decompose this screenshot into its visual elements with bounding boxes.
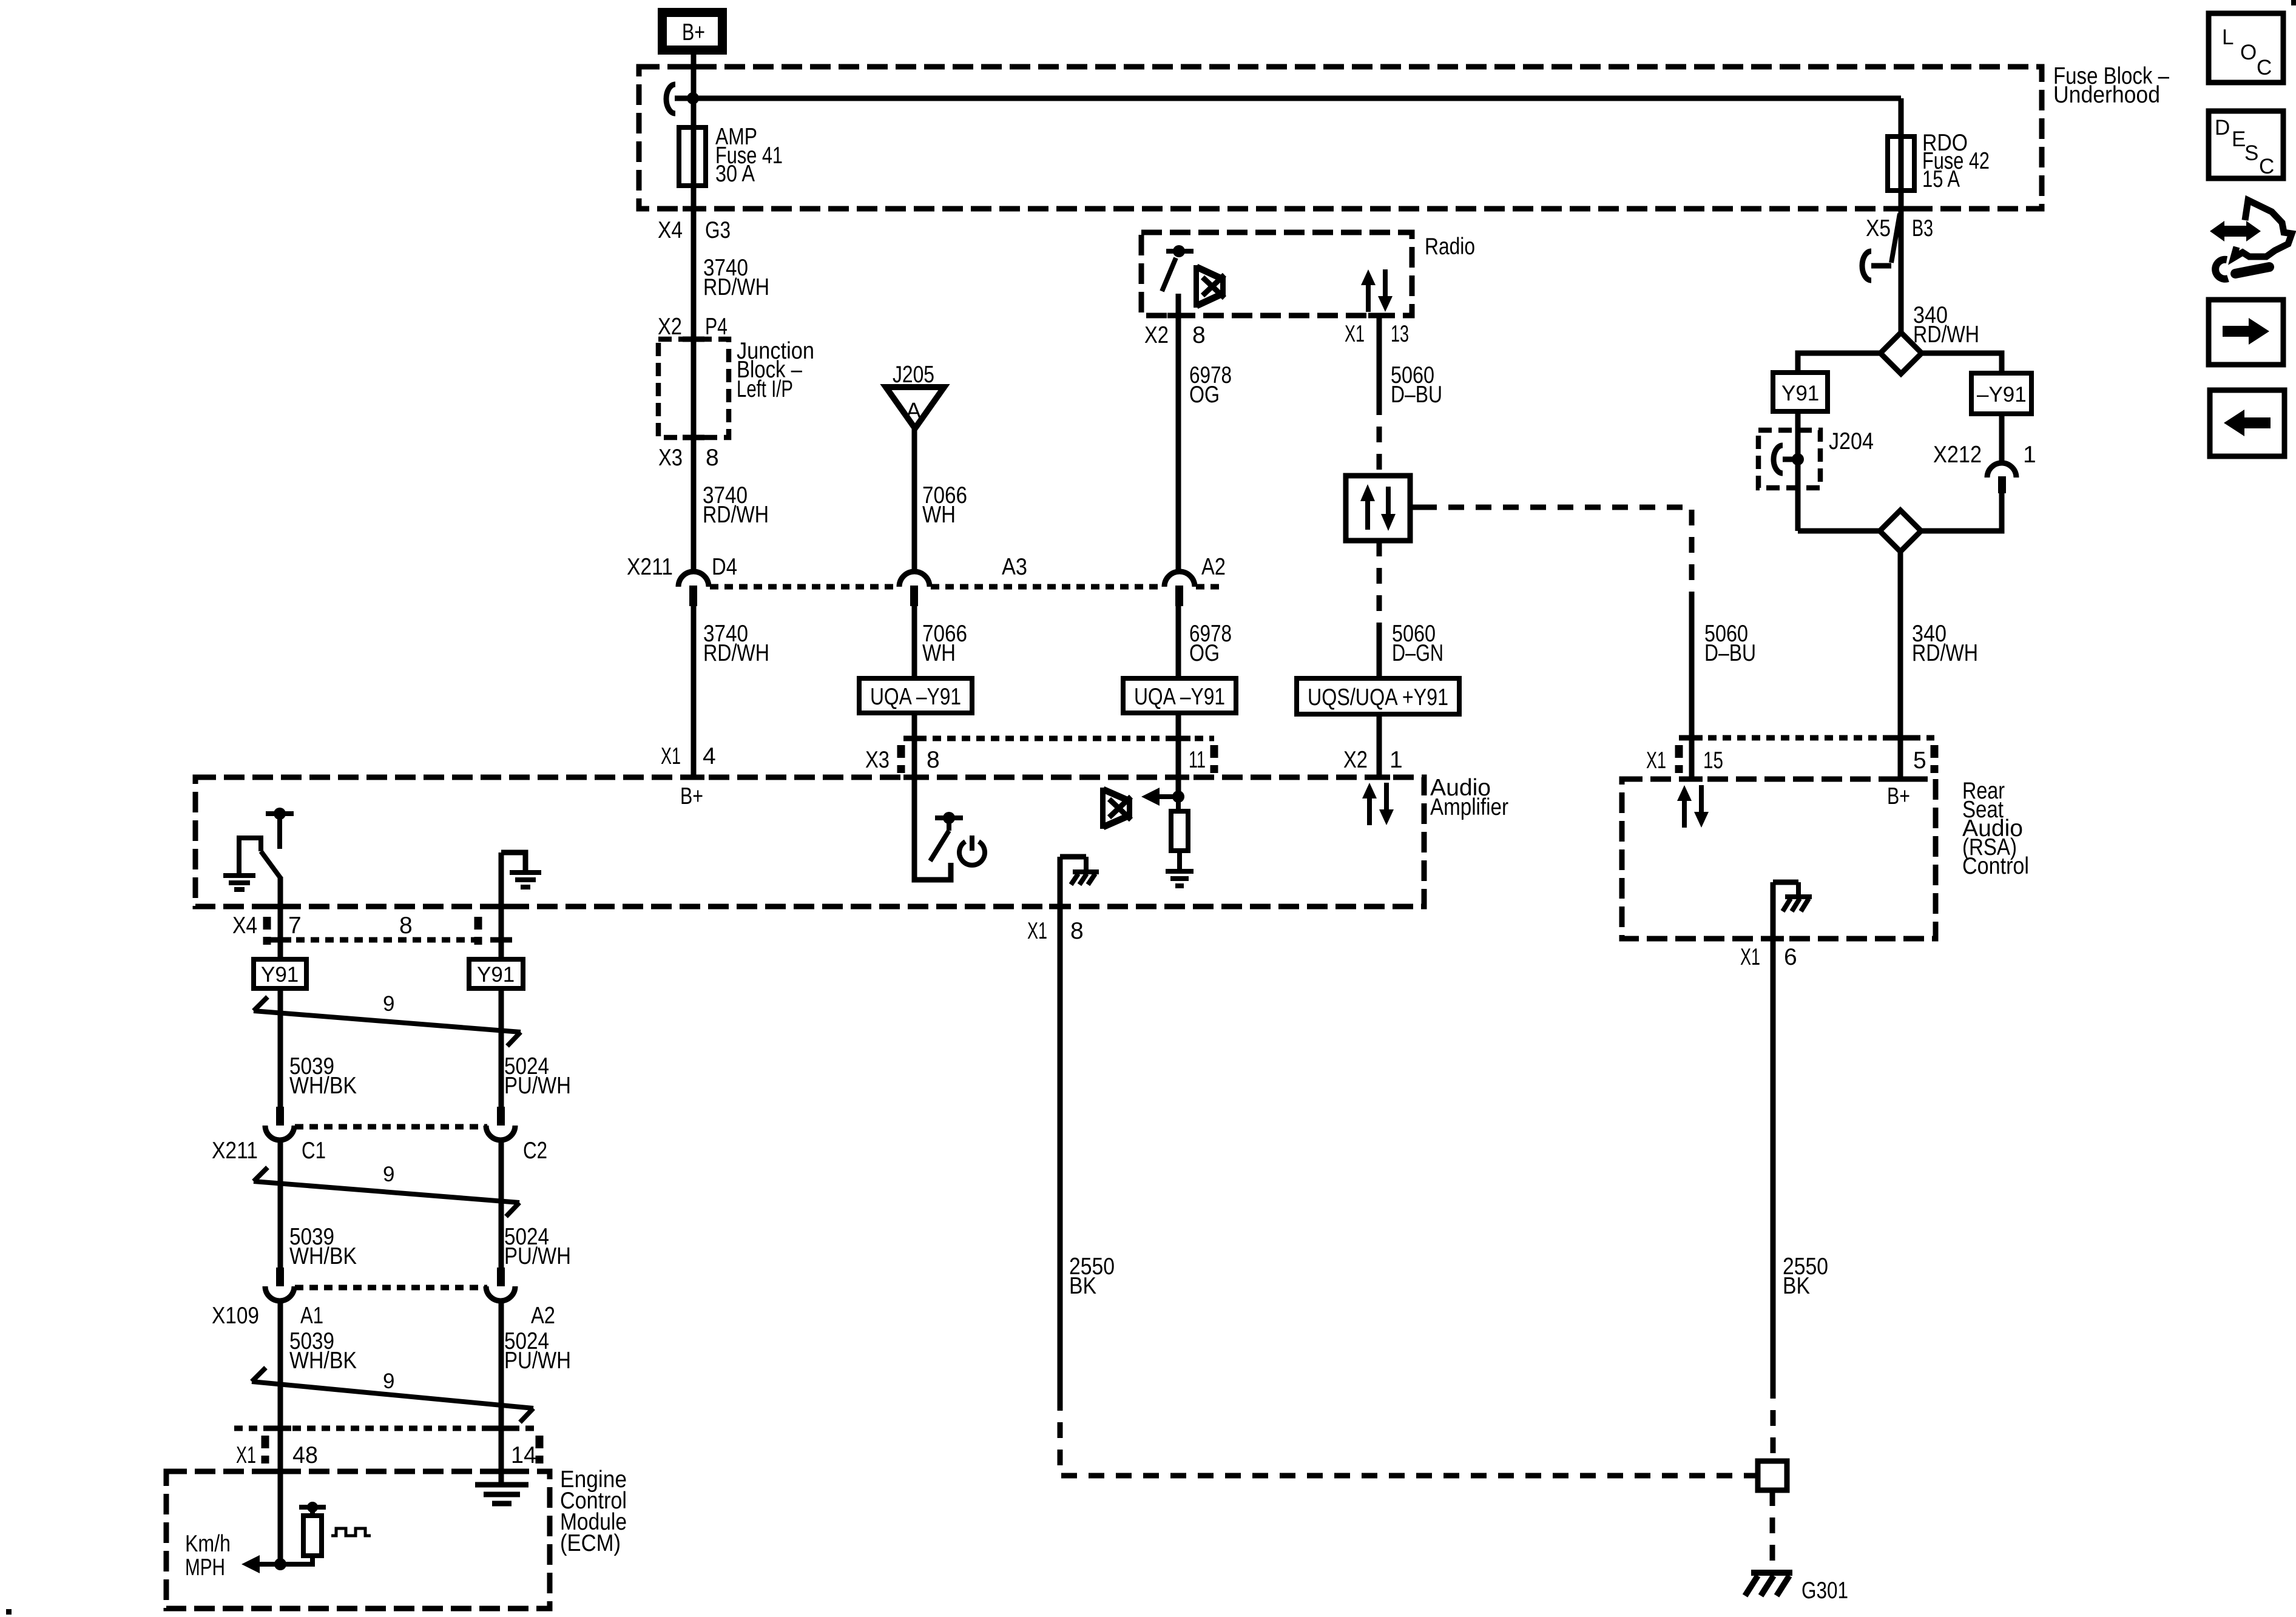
svg-text:Underhood: Underhood: [2053, 82, 2160, 108]
icon box arrow left: [2210, 390, 2284, 456]
svg-text:OG: OG: [1189, 382, 1220, 408]
wire through RDO fuse: [1899, 137, 1904, 209]
dashed ground run from RSA to splice: [1771, 1383, 1776, 1461]
svg-text:X4: X4: [658, 217, 683, 243]
wire 6978 OG X211 to UQA box: [1176, 606, 1181, 680]
connector row X211 dotted line: [710, 584, 1220, 590]
wire 7066 WH X211 to UQA box: [912, 606, 917, 680]
label 5024 PU/WH third: [504, 1328, 571, 1374]
tick wire crossing junction block bottom: [683, 435, 704, 441]
svg-text:X5: X5: [1866, 215, 1891, 241]
wire 340 RD/WH diamond to RSA: [1898, 552, 1903, 779]
svg-text:WH/BK: WH/BK: [289, 1073, 357, 1099]
connector hook at B+ bus entry: [666, 84, 675, 113]
label Engine Control Module ECM: [560, 1467, 627, 1556]
amplifier speaker symbol: [1100, 788, 1132, 829]
tick X4-8 wire at dotted row: [490, 937, 512, 943]
audio amplifier dashed box: [195, 777, 1424, 906]
label 6978 OG second: [1189, 621, 1232, 666]
label 2550 BK amplifier side: [1069, 1254, 1115, 1299]
icon wiring harness with wrench: [2210, 200, 2292, 279]
connector X109-A1 pin and cup: [265, 1268, 294, 1301]
amplifier power switch with U contact: [914, 777, 963, 880]
junction dot on bus at AMP fuse: [687, 92, 699, 104]
svg-text:PU/WH: PU/WH: [504, 1073, 571, 1099]
tick 340 wire end at RSA top: [1889, 777, 1911, 782]
crossover symbol 9 second: [254, 1167, 519, 1217]
tick 5024 wire at ECM dotted row: [490, 1426, 512, 1431]
svg-text:X3: X3: [658, 445, 683, 471]
svg-text:OG: OG: [1189, 640, 1220, 666]
tick X1-13 wire at radio box bottom: [1368, 313, 1390, 319]
tick 7066 wire crossing amplifier top: [903, 775, 925, 780]
svg-text:C: C: [2257, 56, 2272, 79]
svg-text:X1: X1: [1646, 748, 1666, 774]
svg-text:RD/WH: RD/WH: [703, 274, 769, 300]
svg-text:X3: X3: [865, 747, 890, 773]
svg-text:X1: X1: [1345, 321, 1365, 347]
label 340 RD/WH second: [1912, 621, 1978, 666]
connector X211-D4 half circle and pin: [678, 572, 709, 606]
tick 6978 wire crossing amplifier top: [1167, 775, 1189, 780]
svg-text:P4: P4: [705, 314, 728, 340]
rear seat audio RSA dashed box: [1622, 779, 1936, 939]
tick X4-7 wire at dotted row: [269, 937, 291, 943]
wire 3740 RD/WH fuse to junction block: [691, 209, 697, 339]
earth ground right inside amplifier: [510, 873, 541, 887]
wire through AMP fuse: [691, 98, 697, 209]
svg-text:J204: J204: [1829, 428, 1874, 454]
label 5024 PU/WH second: [504, 1224, 571, 1269]
svg-text:X4: X4: [232, 913, 257, 939]
wire through junction block: [691, 339, 697, 437]
svg-text:1: 1: [2023, 442, 2036, 468]
svg-text:Y91: Y91: [477, 963, 515, 987]
tick AMP fuse wire crossing fuse block bottom edge: [683, 206, 704, 212]
svg-text:X1: X1: [1027, 918, 1047, 944]
tick where B+ wire crosses fuse block top edge: [683, 64, 704, 70]
svg-text:4: 4: [703, 743, 716, 769]
svg-text:Y91: Y91: [1781, 382, 1819, 405]
square wave signal symbol: [331, 1528, 371, 1536]
svg-text:15 A: 15 A: [1922, 166, 1960, 192]
label Audio Amplifier: [1430, 775, 1508, 820]
junction dot speed output: [274, 1558, 286, 1570]
branch bus right to -Y91: [1922, 353, 2002, 374]
label X1 48 14 ECM pins: [236, 1442, 536, 1468]
svg-text:X212: X212: [1933, 442, 1982, 468]
svg-text:30 A: 30 A: [715, 161, 755, 187]
fuse AMP Fuse 41: [679, 127, 706, 186]
wire 5060 D-GN dashed below data link box: [1377, 541, 1382, 624]
wire 5039 X109 to ECM: [278, 1301, 283, 1471]
svg-text:E: E: [2232, 127, 2246, 151]
svg-text:7: 7: [288, 913, 302, 939]
svg-text:8: 8: [399, 913, 413, 939]
svg-text:RD/WH: RD/WH: [1912, 640, 1978, 666]
connector hook inside J204: [1774, 445, 1804, 473]
svg-text:C2: C2: [523, 1138, 547, 1164]
fuse RDO Fuse 42: [1888, 137, 1914, 191]
splice diamond upper: [1880, 333, 1922, 374]
splice diamond lower: [1880, 510, 1921, 552]
svg-text:8: 8: [927, 747, 940, 773]
wire 2550 BK RSA ground: [1771, 882, 1776, 1383]
tick 5039 wire crossing ECM top: [269, 1469, 291, 1474]
dashed ground run splice to G301: [1770, 1490, 1775, 1568]
svg-text:A: A: [906, 399, 922, 424]
connector hook X5: [1862, 214, 1900, 280]
option box -Y91: [1971, 373, 2031, 414]
option box Y91 lower left: [254, 959, 306, 988]
label RDO Fuse 42 15 A: [1922, 130, 1990, 192]
earth ground left inside amplifier: [223, 876, 255, 890]
label 5060 D-BU second: [1704, 621, 1756, 666]
svg-text:G3: G3: [705, 217, 731, 243]
wire 3740 RD/WH X211 to amplifier: [691, 606, 697, 777]
connector X211-C2 pin and cup: [486, 1107, 515, 1140]
label 5060 D-GN: [1392, 621, 1443, 666]
tick X4-7 wire crossing amplifier bottom: [269, 904, 291, 910]
label X4 7 connector: [232, 913, 302, 939]
svg-text:A2: A2: [1201, 554, 1226, 580]
label 5060 D-BU: [1391, 362, 1442, 408]
label Km/h MPH: [185, 1531, 231, 1581]
label X1 6 RSA ground connector: [1740, 944, 1797, 970]
svg-text:A1: A1: [300, 1303, 323, 1329]
svg-text:9: 9: [383, 992, 394, 1016]
resistor inside amplifier: [1171, 797, 1188, 871]
label X212 1 connector: [1933, 442, 2036, 468]
tick 5060 wire at RSA dotted row: [1681, 735, 1703, 741]
wire 5060 D-BU dashed to data link box: [1377, 399, 1382, 476]
svg-text:X1: X1: [1740, 944, 1760, 970]
RSA updown arrows: [1677, 785, 1709, 828]
label X3 8 amplifier: [865, 747, 940, 773]
page mark top right: [2291, 0, 2296, 5]
wire Y91 to J204 splice: [1795, 411, 1801, 531]
label 5039 WH/BK first: [289, 1053, 357, 1099]
svg-text:WH: WH: [922, 502, 956, 528]
svg-text:PU/WH: PU/WH: [504, 1348, 571, 1374]
label 5024 PU/WH first: [504, 1053, 571, 1099]
wire 5024 X109 to ECM: [499, 1301, 504, 1471]
svg-text:6: 6: [1784, 944, 1797, 970]
svg-text:S: S: [2244, 141, 2258, 165]
svg-text:48: 48: [292, 1442, 318, 1468]
option box Y91: [1773, 373, 1828, 411]
page mark bottom left: [6, 1609, 12, 1615]
svg-text:Km/h: Km/h: [185, 1531, 231, 1557]
svg-text:X2: X2: [1343, 747, 1368, 773]
svg-text:BK: BK: [1783, 1273, 1810, 1299]
radio updown arrows: [1361, 269, 1393, 312]
svg-text:–Y91: –Y91: [1977, 383, 2027, 407]
svg-text:X1: X1: [236, 1442, 256, 1468]
svg-text:B+: B+: [1887, 783, 1910, 809]
connector X211-A2 half circle and pin: [1164, 572, 1195, 606]
svg-text:RD/WH: RD/WH: [703, 640, 769, 666]
connector X211-C1 pin and cup: [265, 1107, 294, 1140]
wire UQS box to amplifier X2-1: [1377, 714, 1382, 777]
svg-text:Left I/P: Left I/P: [737, 376, 793, 402]
label X2 8 radio connector: [1144, 322, 1206, 348]
svg-text:WH/BK: WH/BK: [289, 1243, 357, 1269]
svg-text:8: 8: [1192, 322, 1206, 348]
svg-text:B+: B+: [682, 19, 705, 46]
tick 7066 wire at dotted row: [903, 736, 925, 741]
wire 5024 to earth ground inside ECM: [499, 1471, 504, 1485]
label X1 8 amplifier ground connector: [1027, 918, 1084, 944]
RSA connector row X1 dotted line: [1679, 738, 1934, 773]
svg-text:D–BU: D–BU: [1391, 382, 1442, 408]
radio dashed box: [1141, 232, 1412, 316]
svg-text:X1: X1: [661, 743, 681, 769]
svg-text:UQA –Y91: UQA –Y91: [870, 684, 961, 710]
wire 5039 WH/BK Y91 to X211: [278, 988, 283, 1109]
earth ground inside ECM: [475, 1485, 528, 1504]
label 5039 WH/BK third: [289, 1328, 357, 1374]
icon box DESC: [2209, 111, 2283, 178]
amplifier internal switch to ground left: [239, 808, 294, 879]
tick wire crossing junction block top: [683, 337, 704, 342]
label X2 1 amplifier connector: [1343, 747, 1403, 773]
wire -Y91 to X212: [1999, 414, 2005, 464]
svg-text:WH: WH: [922, 640, 956, 666]
svg-text:D4: D4: [712, 554, 737, 580]
data link connector box with arrows: [1346, 476, 1421, 541]
svg-text:X2: X2: [1144, 322, 1169, 348]
resistor with tap inside ECM: [280, 1502, 326, 1564]
wire 5024 PU/WH Y91 to X211: [499, 988, 504, 1109]
icon box arrow right: [2209, 300, 2283, 365]
crossover symbol 9 third: [252, 1368, 533, 1422]
svg-text:A3: A3: [1002, 554, 1027, 580]
svg-text:C: C: [2259, 155, 2274, 178]
branch bus left to Y91: [1798, 353, 1880, 374]
power icon: [959, 836, 985, 865]
dashed ground run from amplifier to splice: [1060, 1395, 1755, 1476]
wire Y91 corner to diamond: [1798, 528, 1880, 534]
svg-text:D–BU: D–BU: [1704, 640, 1756, 666]
tick 5039 wire at ECM dotted row: [269, 1426, 291, 1431]
amplifier ground wire corner and chassis ground: [1060, 857, 1099, 885]
label X109 A1 A2: [212, 1303, 555, 1329]
wire 5039 to speed output junction: [278, 1471, 283, 1564]
svg-text:J205: J205: [893, 362, 934, 388]
connector X109-A2 pin and cup: [486, 1268, 515, 1301]
tick X4-8 wire crossing amplifier bottom: [491, 904, 513, 910]
svg-text:(ECM): (ECM): [560, 1530, 621, 1556]
label 7066 WH second: [922, 621, 967, 666]
wire bus corner down to RDO fuse: [1899, 98, 1904, 138]
svg-text:RD/WH: RD/WH: [1913, 322, 1979, 348]
label X1 15 RSA connector: [1646, 748, 1723, 774]
chassis ground G301: [1745, 1573, 1792, 1596]
svg-text:B+: B+: [680, 783, 703, 809]
svg-text:5: 5: [1913, 748, 1926, 774]
svg-text:A2: A2: [531, 1303, 555, 1329]
arrow Km/h MPH: [241, 1555, 280, 1573]
svg-text:Radio: Radio: [1425, 234, 1475, 260]
earth ground inside amplifier: [1166, 871, 1194, 886]
svg-text:BK: BK: [1069, 1273, 1096, 1299]
svg-text:L: L: [2222, 25, 2234, 49]
B+ bus wire inside fuse block: [675, 96, 1901, 101]
tick X2-1 wire end at amplifier top: [1368, 775, 1390, 780]
tick 340 wire at RSA dotted row: [1890, 735, 1912, 741]
wire X212 to diamond corner: [1921, 493, 2002, 531]
tick RDO wire crossing fuse block bottom edge: [1890, 206, 1912, 212]
svg-text:11: 11: [1189, 747, 1206, 773]
wire X4-8 to Y91: [499, 940, 504, 959]
label Junction Block - Left I/P: [737, 338, 814, 402]
splice box on ground run: [1758, 1461, 1787, 1490]
svg-text:PU/WH: PU/WH: [504, 1243, 571, 1269]
wire from B+ into fuse block: [691, 55, 697, 129]
label X4 G3 connector: [658, 217, 731, 243]
crossover symbol 9 first: [254, 997, 521, 1046]
amplifier internal ground right corner: [501, 852, 525, 941]
option box Y91 lower right: [469, 959, 523, 988]
connector row X109 dotted line: [295, 1285, 487, 1291]
splice J204 dashed box: [1758, 430, 1820, 488]
option box UQA -Y91 left: [859, 678, 972, 713]
tick 6978 wire at dotted row: [1169, 736, 1190, 741]
svg-text:13: 13: [1391, 321, 1409, 347]
radio power switch: [1162, 245, 1194, 291]
connector row X211 C dotted line: [295, 1124, 487, 1130]
tick X2-8 wire at radio box bottom: [1167, 313, 1189, 319]
svg-text:X109: X109: [212, 1303, 259, 1329]
svg-text:WH/BK: WH/BK: [289, 1348, 357, 1374]
svg-text:15: 15: [1703, 748, 1723, 774]
label X211 C1 C2: [212, 1138, 547, 1164]
battery feed symbol B+: [658, 8, 727, 55]
svg-text:1: 1: [1389, 747, 1403, 773]
label X5 B3 connector: [1866, 215, 1933, 241]
wire 5060 D-GN solid to UQS box: [1377, 624, 1382, 680]
engine control module dashed box: [166, 1471, 550, 1609]
svg-text:RD/WH: RD/WH: [703, 502, 769, 528]
radio speaker symbol: [1194, 265, 1226, 308]
wire UQA box to amplifier: [912, 713, 917, 881]
tick 5024 wire crossing ECM top: [490, 1469, 512, 1474]
wire 3740 RD/WH junction block to X211: [691, 437, 697, 573]
label 5039 WH/BK second: [289, 1224, 357, 1269]
label 3740 RD/WH third: [703, 621, 769, 666]
svg-text:X2: X2: [658, 314, 682, 340]
label 6978 OG: [1189, 362, 1232, 408]
amplifier updown arrows: [1362, 783, 1394, 825]
RSA ground corner and chassis ground: [1773, 882, 1812, 911]
option box UQS/UQA +Y91: [1297, 678, 1459, 714]
svg-text:B3: B3: [1912, 215, 1933, 241]
svg-text:X211: X211: [212, 1138, 258, 1164]
label AMP Fuse 41 30 A: [715, 124, 783, 187]
wire 5060 D-BU radio solid part: [1377, 316, 1382, 399]
junction block left I/P dashed box: [658, 339, 729, 437]
svg-text:UQA –Y91: UQA –Y91: [1134, 684, 1225, 710]
wire 5039 X211 to X109: [278, 1140, 283, 1269]
svg-text:Y91: Y91: [261, 963, 299, 987]
wire 6978 UQA box to amplifier: [1176, 713, 1181, 798]
svg-text:9: 9: [383, 1369, 394, 1393]
wire 5060 D-BU solid to RSA: [1689, 593, 1695, 779]
svg-text:D–GN: D–GN: [1392, 640, 1443, 666]
svg-text:G301: G301: [1801, 1578, 1848, 1604]
svg-text:MPH: MPH: [185, 1555, 225, 1581]
svg-text:D: D: [2215, 116, 2230, 140]
wire 340 RD/WH fuse to diamond: [1899, 209, 1904, 334]
svg-text:X211: X211: [627, 554, 673, 580]
svg-text:C1: C1: [302, 1138, 326, 1164]
wire X4-7 to Y91: [278, 940, 283, 959]
connector X211-A3 half circle and pin: [899, 572, 930, 606]
arrow to amplifier speaker: [1141, 788, 1177, 806]
dashed wire 5060 D-BU data link to RSA corner: [1421, 507, 1692, 596]
option box UQA -Y91 right: [1123, 678, 1236, 713]
label X211 D4: [627, 554, 737, 580]
label X2 P4 connector: [658, 314, 728, 340]
tick ground wire crossing amplifier bottom: [1049, 904, 1071, 910]
svg-text:8: 8: [1070, 918, 1084, 944]
tick X1-15 wire end at RSA top: [1681, 777, 1703, 782]
svg-text:9: 9: [383, 1163, 394, 1186]
svg-text:Control: Control: [1962, 853, 2029, 879]
junction dot on 6978 wire: [1172, 791, 1184, 803]
antenna triangle symbol: [886, 387, 944, 428]
wire X4-7 from switch to amplifier edge: [278, 877, 283, 941]
wire 5024 X211 to X109: [499, 1140, 504, 1269]
fuse block underhood dashed box: [639, 67, 2042, 209]
label 3740 RD/WH: [703, 255, 769, 300]
connector X212 half circle and pin: [1987, 463, 2016, 493]
wire 2550 BK amplifier ground: [1058, 857, 1063, 1395]
label Rear Seat Audio RSA Control: [1962, 778, 2029, 879]
icon box LOC: [2209, 13, 2283, 83]
label Fuse Block - Underhood: [2053, 63, 2169, 108]
tick ground wire crossing RSA bottom: [1762, 936, 1784, 942]
label 3740 RD/WH second: [703, 482, 769, 528]
label X1 13 radio connector: [1345, 321, 1409, 347]
wire 7066 WH antenna to X211: [912, 426, 917, 573]
svg-text:8: 8: [706, 445, 719, 471]
svg-text:UQS/UQA +Y91: UQS/UQA +Y91: [1308, 684, 1448, 711]
tick X1-4 wire end at amplifier top: [683, 775, 704, 780]
label 7066 WH: [922, 482, 967, 528]
label 2550 BK RSA side: [1783, 1254, 1828, 1299]
amplifier connector row X3 dotted line: [901, 738, 1214, 773]
label 340 RD/WH: [1913, 302, 1979, 348]
svg-text:Amplifier: Amplifier: [1430, 794, 1508, 820]
label X1 4 amplifier connector: [661, 743, 716, 769]
connector row ECM X1 dotted line with separators: [234, 1428, 539, 1463]
wire 6978 OG radio to X211: [1176, 294, 1181, 573]
svg-text:O: O: [2240, 41, 2257, 64]
label X3 8 connector: [658, 445, 719, 471]
connector row X4 dotted line with separators: [267, 917, 478, 945]
svg-text:14: 14: [511, 1442, 536, 1468]
